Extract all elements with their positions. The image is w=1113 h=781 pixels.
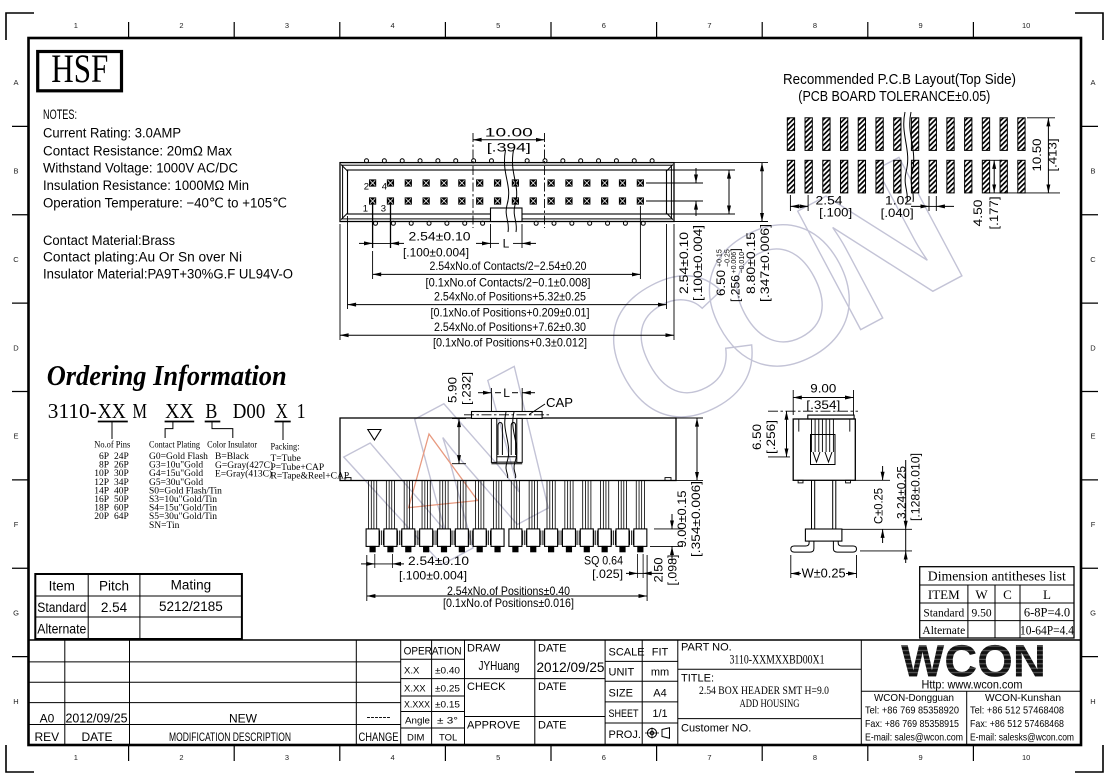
svg-text:3: 3 (381, 204, 386, 215)
svg-text:C: C (1003, 587, 1012, 602)
title block grid (29, 639, 1082, 641)
svg-text:L: L (1043, 587, 1051, 602)
front view polarity triangle (368, 430, 381, 441)
svg-text:8: 8 (813, 753, 817, 762)
svg-text:H: H (1090, 697, 1095, 706)
front dimension overall positions (366, 555, 368, 601)
svg-text:Operation Temperature: −40℃ t: Operation Temperature: −40℃ to +105℃ (43, 196, 287, 211)
svg-text:DATE: DATE (538, 681, 567, 693)
svg-text:Insulator Material:PA9T+30%G.F: Insulator Material:PA9T+30%G.F UL94V-O (43, 267, 293, 282)
svg-text:1: 1 (297, 399, 306, 423)
svg-text:2.54xNo.of Positions+5.32±0.25: 2.54xNo.of Positions+5.32±0.25 (434, 289, 586, 303)
svg-text:F: F (14, 520, 19, 529)
svg-text:[0.1xNo.of Positions+0.209±0.0: [0.1xNo.of Positions+0.209±0.01] (431, 306, 590, 320)
svg-text:Contact Plating: Contact Plating (149, 441, 200, 451)
svg-text:[.354]: [.354] (806, 398, 840, 412)
svg-text:[.100]: [.100] (819, 206, 852, 220)
svg-text:2012/09/25: 2012/09/25 (66, 712, 128, 726)
svg-text:WCON-Dongguan: WCON-Dongguan (874, 692, 954, 704)
svg-text:9.00: 9.00 (810, 382, 836, 396)
top view body outer (340, 163, 674, 222)
svg-text:CHECK: CHECK (467, 681, 506, 693)
front dimension SQ 0.64 (637, 554, 639, 578)
svg-text:10: 10 (1022, 21, 1030, 30)
svg-text:(PCB BOARD TOLERANCE±0.05): (PCB BOARD TOLERANCE±0.05) (798, 88, 990, 105)
svg-text:E: E (1090, 432, 1095, 441)
side dimension 9.00 width (792, 390, 794, 415)
svg-text:2.54xNo.of Positions+7.62±0.30: 2.54xNo.of Positions+7.62±0.30 (434, 320, 586, 334)
svg-text:DATE: DATE (538, 643, 567, 655)
side view body (793, 419, 855, 480)
svg-text:4.50: 4.50 (971, 199, 985, 226)
cap latch prongs (498, 423, 502, 456)
side dimension C and 3.24 (855, 479, 890, 481)
dimension 2.54 row pitch vertical (695, 168, 697, 183)
svg-text:Tel: +86 769 85358920: Tel: +86 769 85358920 (865, 705, 959, 717)
HSF logo box (38, 52, 122, 91)
svg-text:+0.006: +0.006 (731, 252, 738, 274)
svg-text:6: 6 (602, 753, 606, 762)
svg-text:5: 5 (496, 21, 500, 30)
front view bottom standoffs (345, 478, 351, 481)
pcb pads rows (787, 118, 794, 151)
svg-text:2: 2 (364, 182, 369, 193)
svg-text:[0.1xNo.of Contacts/2−0.1±0.00: [0.1xNo.of Contacts/2−0.1±0.008] (426, 276, 591, 290)
front view smt contacts (366, 529, 379, 547)
svg-text:M: M (133, 399, 148, 423)
dimension 5.90 cap depth (452, 418, 466, 420)
top view break lines dash-dot (472, 133, 474, 228)
svg-text:3110-: 3110- (48, 399, 97, 423)
svg-text:A4: A4 (653, 688, 666, 700)
svg-text:8: 8 (813, 21, 817, 30)
svg-text:W: W (975, 587, 988, 602)
svg-text:FIT: FIT (652, 647, 669, 659)
svg-text:C: C (1090, 255, 1096, 264)
svg-text:XX: XX (165, 399, 194, 423)
svg-text:XX: XX (98, 399, 126, 423)
svg-text:E-mail: salesks@wcon.com: E-mail: salesks@wcon.com (970, 732, 1074, 744)
dimension 6.50 vertical (728, 170, 730, 214)
svg-text:C±0.25: C±0.25 (874, 488, 886, 524)
svg-text:[.347±0.006]: [.347±0.006] (760, 224, 772, 302)
svg-text:F: F (1091, 520, 1096, 529)
svg-text:ITEM: ITEM (928, 587, 960, 602)
svg-text:3: 3 (285, 753, 289, 762)
leader to Contact Plating (165, 422, 173, 438)
front view solder feet (370, 546, 375, 551)
svg-text:5212/2185: 5212/2185 (159, 599, 223, 614)
svg-text:10: 10 (1022, 753, 1030, 762)
svg-text:9.00±0.15: 9.00±0.15 (677, 491, 689, 548)
frame row ticks and letters (12, 125, 29, 127)
svg-text:REV: REV (34, 730, 59, 744)
svg-text:SCALE: SCALE (609, 647, 645, 659)
watermark WCON outline (323, 327, 602, 620)
svg-text:Mating: Mating (171, 578, 212, 593)
svg-text:[.256: [.256 (731, 275, 743, 302)
svg-text:W±0.25: W±0.25 (802, 567, 846, 581)
corner mark top-right (1075, 13, 1103, 40)
pcb dimension 4.50 (986, 159, 1002, 161)
svg-text:7: 7 (707, 21, 711, 30)
front dimension 9.00 height (696, 418, 698, 480)
side view cap plate (808, 415, 854, 419)
svg-text:Contact Material:Brass: Contact Material:Brass (43, 233, 175, 248)
svg-text:Contact plating:Au Or Sn over: Contact plating:Au Or Sn over Ni (43, 250, 242, 265)
svg-text:G: G (13, 608, 19, 617)
side view wall inner lines (798, 419, 800, 432)
svg-text:2: 2 (179, 753, 183, 762)
svg-text:A0: A0 (40, 712, 55, 726)
svg-text:10.50: 10.50 (1030, 138, 1044, 171)
front right extension lines (676, 417, 703, 419)
svg-text:ADD HOUSING: ADD HOUSING (740, 698, 800, 710)
dimension 8.80 vertical (761, 163, 763, 222)
front dimension 2.54 pitch (374, 554, 376, 568)
svg-text:5: 5 (496, 753, 500, 762)
svg-text:Alternate: Alternate (37, 622, 86, 637)
svg-text:[.394]: [.394] (487, 141, 531, 155)
top view S-break curves (504, 150, 508, 232)
top view key notch (491, 208, 523, 222)
pcb S-break curves (904, 112, 908, 202)
svg-text:Packing:: Packing: (271, 443, 300, 453)
top view corner chamfers (341, 165, 348, 172)
svg-text:------: ------ (367, 710, 391, 724)
cap plate (472, 412, 543, 419)
top view polarization bumps top (365, 159, 369, 163)
svg-text:1: 1 (363, 204, 368, 215)
watermark red triangle (409, 434, 478, 508)
cap latch arms (491, 418, 496, 462)
svg-text:Tel: +86 512 57468408: Tel: +86 512 57468408 (970, 705, 1064, 717)
dimension L key notch top view (490, 224, 492, 248)
svg-text:Withstand Voltage: 1000V AC/D: Withstand Voltage: 1000V AC/DC (43, 161, 238, 176)
svg-text:Current Rating: 3.0AMP: Current Rating: 3.0AMP (43, 126, 181, 141)
svg-text:C: C (13, 255, 19, 264)
svg-text:2.54: 2.54 (101, 600, 128, 615)
top view pin field (370, 180, 376, 186)
svg-text:D00: D00 (233, 399, 265, 423)
side view prong verticals (811, 419, 813, 452)
svg-text:5.90: 5.90 (446, 377, 460, 403)
underline plating field (165, 421, 195, 423)
svg-text:[.040]: [.040] (881, 206, 914, 220)
svg-text:Standard: Standard (37, 600, 86, 615)
svg-text:6.50: 6.50 (716, 270, 728, 296)
side dimension 6.50 (768, 456, 790, 458)
svg-text:20P: 20P (94, 512, 109, 522)
svg-text:Dimension antitheses list: Dimension antitheses list (928, 569, 1066, 584)
svg-text:Pitch: Pitch (99, 579, 129, 594)
svg-text:X.XXX: X.XXX (404, 700, 431, 711)
svg-text:64P: 64P (114, 512, 129, 522)
dimension contacts row length (372, 251, 374, 279)
side view bottom nubs (798, 480, 803, 483)
svg-text:[.232]: [.232] (460, 372, 474, 405)
svg-text:SIZE: SIZE (609, 688, 633, 700)
corner mark top-left (6, 13, 34, 40)
leader to Color Insulator (212, 422, 233, 438)
svg-text:PART NO.: PART NO. (681, 642, 732, 654)
svg-text:4: 4 (391, 753, 395, 762)
top view shroud cavity (348, 170, 667, 214)
svg-text:L: L (503, 386, 510, 400)
svg-text:−0.010: −0.010 (739, 252, 746, 274)
svg-text:10.00: 10.00 (485, 126, 534, 140)
svg-text:1: 1 (74, 753, 78, 762)
svg-text:PROJ.: PROJ. (609, 729, 641, 741)
svg-text:[.413]: [.413] (1046, 139, 1060, 172)
svg-text:E: E (13, 432, 18, 441)
svg-text:Color Insulator: Color Insulator (207, 441, 258, 451)
svg-text:2.50: 2.50 (654, 558, 666, 583)
svg-text:8.80±0.15: 8.80±0.15 (746, 232, 758, 294)
svg-text:9: 9 (919, 21, 923, 30)
svg-text:NOTES:: NOTES: (43, 107, 77, 122)
svg-text:±0.40: ±0.40 (435, 666, 460, 677)
svg-text:No.of Pins: No.of Pins (94, 440, 130, 451)
svg-text:X.X: X.X (404, 666, 420, 677)
side view inner box (811, 435, 836, 465)
svg-text:L: L (503, 237, 510, 251)
svg-text:DIM: DIM (407, 733, 425, 744)
svg-text:9: 9 (919, 753, 923, 762)
top view right extension lines (646, 182, 703, 184)
svg-text:mm: mm (651, 667, 669, 679)
front S-break curves (505, 412, 509, 478)
svg-text:UNIT: UNIT (609, 667, 635, 679)
dimension positions+7.62 overall (339, 224, 341, 340)
svg-text:E=Gray(413C): E=Gray(413C) (215, 469, 272, 480)
underline insulator field (205, 421, 221, 423)
svg-text:Contact Resistance: 20mΩ Max: Contact Resistance: 20mΩ Max (43, 144, 232, 159)
side view smt base (805, 529, 842, 541)
svg-text:[.025]: [.025] (592, 567, 623, 581)
svg-text:Fax: +86 512 57468468: Fax: +86 512 57468468 (970, 718, 1064, 730)
svg-text:WCON-Kunshan: WCON-Kunshan (985, 692, 1061, 704)
svg-text:2.54±0.10: 2.54±0.10 (409, 230, 471, 244)
dimension positions+5.32 (347, 216, 349, 309)
svg-text:OPERATION: OPERATION (404, 646, 462, 658)
svg-text:±0.25: ±0.25 (435, 684, 460, 695)
svg-text:[0.1xNo.of Positions±0.016]: [0.1xNo.of Positions±0.016] (443, 596, 574, 610)
svg-text:[.098]: [.098] (668, 555, 680, 586)
svg-text:9.50: 9.50 (971, 608, 991, 620)
svg-text:4: 4 (382, 182, 387, 193)
mating table grid (35, 574, 242, 639)
svg-text:E-mail: sales@wcon.com: E-mail: sales@wcon.com (865, 732, 963, 744)
svg-text:B: B (1090, 167, 1095, 176)
svg-text:D: D (13, 343, 19, 352)
svg-text:D: D (1090, 343, 1096, 352)
side view pin shanks (811, 480, 813, 529)
svg-text:DATE: DATE (81, 730, 112, 744)
svg-text:1/1: 1/1 (652, 708, 667, 720)
svg-text:NEW: NEW (229, 712, 258, 726)
side view chevron prongs (813, 452, 820, 462)
svg-text:TOL: TOL (439, 733, 457, 744)
front dimension 2.50 contact height (671, 514, 673, 529)
corner mark bottom-left (6, 745, 34, 772)
top view polarization bumps bottom (374, 221, 378, 225)
svg-text:+0.15: +0.15 (717, 249, 724, 267)
dimension L cap width (490, 388, 492, 412)
svg-text:Http: www.wcon.com: Http: www.wcon.com (922, 678, 1023, 692)
svg-text:2.54±0.10: 2.54±0.10 (408, 554, 469, 568)
svg-text:2.54xNo.of Contacts/2−2.54±0.2: 2.54xNo.of Contacts/2−2.54±0.20 (430, 259, 587, 273)
svg-text:Insulation Resistance: 1000MΩ: Insulation Resistance: 1000MΩ Min (43, 178, 249, 193)
svg-text:[.177]: [.177] (987, 197, 1001, 230)
dimension 2.54 pin pitch top view (372, 204, 374, 248)
svg-text:DATE: DATE (538, 720, 567, 732)
svg-text:JYHuang: JYHuang (479, 658, 520, 673)
svg-text:G: G (1090, 608, 1096, 617)
svg-text:±0.15: ±0.15 (435, 700, 460, 711)
svg-text:6: 6 (602, 21, 606, 30)
svg-text:APPROVE: APPROVE (467, 720, 520, 732)
svg-text:2.54±0.10: 2.54±0.10 (679, 232, 691, 294)
projection symbol (647, 728, 656, 737)
pcb dimension 1.02 pad width (928, 196, 930, 211)
svg-text:Recommended P.C.B Layout(Top S: Recommended P.C.B Layout(Top Side) (783, 71, 1016, 88)
svg-text:3110-XXMXXBD00X1: 3110-XXMXXBD00X1 (730, 653, 825, 667)
svg-text:MODIFICATION DESCRIPTION: MODIFICATION DESCRIPTION (169, 730, 291, 744)
svg-text:]: ] (731, 248, 743, 251)
svg-text:[.100±0.004]: [.100±0.004] (403, 246, 469, 260)
pcb dimension 10.50 (1027, 117, 1055, 119)
underline packing field (275, 421, 291, 423)
svg-text:3: 3 (285, 21, 289, 30)
svg-text:[.256]: [.256] (764, 420, 778, 454)
svg-text:[0.1xNo.of Positions+0.3±0.012: [0.1xNo.of Positions+0.3±0.012] (433, 335, 587, 349)
front view pins (369, 481, 372, 529)
svg-text:[.354±0.006]: [.354±0.006] (691, 481, 703, 557)
side dimension W±0.25 (790, 555, 792, 578)
svg-text:H: H (13, 697, 18, 706)
svg-text:[.100±0.004]: [.100±0.004] (399, 569, 467, 583)
svg-text:SN=Tin: SN=Tin (149, 521, 180, 531)
svg-text:4: 4 (391, 21, 395, 30)
svg-text:Fax: +86 769 85358915: Fax: +86 769 85358915 (865, 718, 959, 730)
svg-text:6.50: 6.50 (750, 424, 764, 450)
svg-text:Ordering Information: Ordering Information (47, 361, 287, 392)
svg-text:R=Tape&Reel+CAP: R=Tape&Reel+CAP (271, 472, 350, 482)
svg-text:CAP: CAP (546, 396, 573, 410)
corner mark bottom-right (1075, 745, 1103, 772)
side view gullwing feet (791, 541, 814, 552)
front view contact hatch strips (379, 531, 381, 546)
svg-text:SHEET: SHEET (609, 708, 639, 720)
svg-text:B: B (13, 167, 18, 176)
svg-text:[.100±0.004]: [.100±0.004] (693, 225, 705, 301)
leader to No.of Pins (111, 422, 113, 439)
cap centerline dash-dot (464, 414, 550, 416)
front view body (340, 418, 676, 481)
svg-text:± 3°: ± 3° (437, 716, 458, 727)
svg-text:A: A (13, 78, 18, 87)
svg-text:7: 7 (707, 753, 711, 762)
svg-text:2: 2 (179, 21, 183, 30)
svg-text:B: B (205, 399, 217, 423)
svg-text:3.24±0.25: 3.24±0.25 (897, 466, 909, 519)
svg-text:X.XX: X.XX (404, 684, 426, 695)
svg-text:A: A (1090, 78, 1095, 87)
side view centerline (768, 410, 858, 412)
pcb dimension 2.54 pitch (789, 195, 791, 211)
svg-text:Item: Item (49, 579, 75, 594)
svg-text:X: X (276, 399, 288, 423)
svg-text:CHANGE: CHANGE (359, 730, 399, 744)
dimension antitheses table (920, 567, 1074, 638)
leader to Packing (282, 422, 284, 440)
svg-text:HSF: HSF (51, 46, 108, 91)
svg-text:TITLE:: TITLE: (681, 673, 714, 685)
svg-text:6-8P=4.0: 6-8P=4.0 (1024, 606, 1070, 620)
svg-text:2.54 BOX HEADER SMT H=9.0: 2.54 BOX HEADER SMT H=9.0 (699, 685, 829, 697)
svg-text:DRAW: DRAW (467, 643, 501, 655)
wcon logo (901, 636, 1046, 687)
svg-text:Angle: Angle (405, 716, 430, 727)
svg-text:[.128±0.010]: [.128±0.010] (911, 453, 923, 521)
svg-text:Standard: Standard (923, 608, 964, 620)
frame column ticks and numbers (128, 22, 130, 38)
svg-text:1: 1 (74, 21, 78, 30)
underline no.of pins field (98, 421, 128, 423)
top view body inner line (343, 165, 672, 219)
svg-text:Customer NO.: Customer NO. (681, 723, 751, 735)
svg-text:2012/09/25: 2012/09/25 (537, 660, 605, 675)
svg-text:SQ 0.64: SQ 0.64 (584, 554, 623, 568)
